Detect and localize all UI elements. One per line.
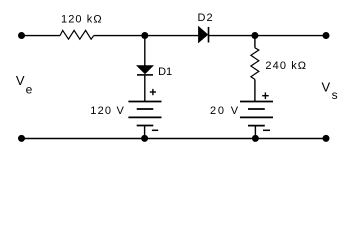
node input top terminal (18, 32, 25, 39)
svg-text:D2: D2 (198, 12, 214, 24)
node input bottom terminal (18, 135, 25, 142)
svg-text:120 V: 120 V (90, 105, 125, 117)
battery V2 plus sign (262, 92, 269, 99)
resistor R2 240 kOhm vertical zigzag (251, 48, 259, 80)
svg-text:V: V (16, 73, 25, 88)
svg-text:20 V: 20 V (210, 105, 240, 117)
svg-text:s: s (332, 88, 338, 102)
diode D1 triangle (137, 66, 153, 74)
wire top rail middle segment (94, 35, 199, 37)
wire top rail left segment (22, 35, 61, 37)
battery V1 120V plates (128, 102, 161, 126)
svg-text:V: V (322, 79, 331, 94)
battery V2 minus sign (263, 129, 270, 131)
battery V1 tick to bottom rail (144, 126, 146, 139)
node junction bottom V2 (252, 135, 259, 142)
resistor R1 120 kOhm zigzag (60, 30, 94, 39)
wire resistor R2 bottom lead to battery (254, 79, 256, 101)
wire bottom rail (22, 138, 327, 140)
battery V2 20V plates (240, 102, 273, 126)
svg-text:e: e (26, 82, 33, 96)
node junction bottom V1 (141, 135, 148, 142)
battery V2 tick to bottom rail (254, 126, 256, 139)
svg-text:240 kΩ: 240 kΩ (265, 60, 307, 72)
wire D1 anode from top rail (144, 36, 146, 66)
diode D2 cathode bar (208, 27, 210, 43)
battery V1 plus sign (150, 89, 156, 95)
wire D1 cathode to battery (144, 76, 146, 102)
wire top rail right segment (208, 35, 326, 37)
diode D1 cathode bar (137, 74, 153, 76)
diode D2 triangle (199, 27, 208, 42)
svg-text:120 kΩ: 120 kΩ (61, 14, 103, 26)
svg-text:D1: D1 (158, 66, 172, 78)
node junction top D1 (141, 32, 148, 39)
node output bottom terminal (323, 135, 330, 142)
battery V1 minus sign (152, 129, 158, 131)
wire resistor R2 top lead (254, 36, 256, 48)
node junction top R2 (251, 32, 258, 39)
node output top terminal (323, 32, 330, 39)
